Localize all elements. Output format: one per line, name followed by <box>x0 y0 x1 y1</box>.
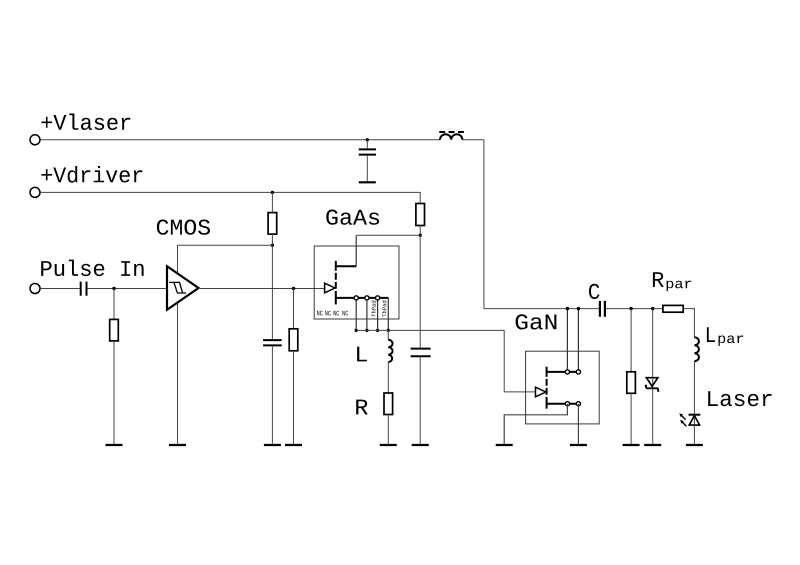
wire damp resistor to ground <box>630 393 632 444</box>
wire resistor to CMOS power node <box>271 234 273 245</box>
label GaAs <box>326 210 379 225</box>
resistor pullup GaAs drain <box>416 204 425 226</box>
capacitor CMOS filter <box>263 340 282 345</box>
capacitor decoupling GaAs <box>411 349 431 357</box>
wire coupling cap to buffer input <box>88 288 168 290</box>
node zener <box>651 307 654 310</box>
wire decoupling cap to ground <box>419 357 421 444</box>
wire R to ground <box>387 415 389 444</box>
wire cap C to Rpar <box>606 308 663 310</box>
resistor R <box>384 393 393 415</box>
node input bias <box>112 287 115 290</box>
wire CMOS power node to buffer <box>178 244 273 246</box>
source bar <box>547 399 579 409</box>
node CMOS power <box>271 244 274 247</box>
transistor GaN FET <box>536 309 581 409</box>
wire zener to ground <box>652 388 654 444</box>
wire laser to ground <box>693 425 695 444</box>
resistor gate pulldown <box>289 329 298 351</box>
terminal Pulse In <box>30 284 40 294</box>
capacitor bypass +Vlaser <box>366 140 368 181</box>
GaAs symbol box <box>314 246 399 319</box>
wire filter cap to ground <box>271 346 273 444</box>
wire GaN source 2 to ground <box>577 404 579 444</box>
resistor Rpar <box>663 305 683 312</box>
label C <box>589 284 600 299</box>
pin label nc x4 <box>317 311 323 316</box>
label +Vdriver <box>41 166 142 183</box>
channel dashed <box>335 269 337 296</box>
ground at CMOS buffer <box>169 444 186 446</box>
label Laser <box>708 391 771 406</box>
label L <box>357 347 367 362</box>
resistor damp <box>627 372 636 394</box>
wire buffer ground pin <box>177 303 179 444</box>
drain pin riser <box>355 235 357 266</box>
wire bias resistor to ground <box>113 341 115 444</box>
capacitor coupling input <box>81 282 87 296</box>
wire +Vlaser rail left <box>40 139 440 141</box>
label Pulse In <box>41 260 143 277</box>
ferrite bead FB1 <box>439 132 464 140</box>
ground at kelvin source <box>496 444 513 446</box>
wire CMOS power node to filter cap <box>271 245 273 339</box>
label Lpar <box>707 327 715 342</box>
label CMOS <box>157 220 210 235</box>
ground at gate pulldown <box>285 444 302 446</box>
pin label ThPad x2 <box>371 301 375 317</box>
resistor input bias <box>110 319 119 341</box>
GaN symbol box <box>526 351 600 424</box>
channel dashed <box>546 375 548 400</box>
drain bar <box>547 367 579 375</box>
source bar <box>336 295 389 305</box>
wire source rail to GaN gate <box>356 330 535 392</box>
laser diode LD1 <box>679 413 700 426</box>
wire +Vdriver rail <box>40 192 420 203</box>
resistor CMOS supply <box>268 213 277 235</box>
transistor GaAs FET <box>317 235 388 330</box>
wire node to bias resistor <box>113 289 115 320</box>
pin circles source <box>565 402 569 406</box>
ground at decoupling cap <box>412 444 429 446</box>
terminal +Vlaser <box>30 135 40 145</box>
op-amp CMOS buffer U1 <box>167 266 199 310</box>
ground at zener <box>644 444 661 446</box>
wire node to damp resistor <box>630 309 632 372</box>
diode zener D1 <box>645 378 659 391</box>
wire Pulse In to coupling cap <box>40 288 79 290</box>
ground at input bias <box>106 444 123 446</box>
wire +Vdriver to resistor <box>271 192 273 212</box>
wire node to pulldown resistor <box>293 289 295 329</box>
wire drain node to GaAs drain pin <box>356 234 420 236</box>
drain bar <box>336 261 356 269</box>
wire drain node down to decoupling cap <box>419 235 421 347</box>
wire +Vlaser rail right of bead <box>462 139 484 141</box>
schmitt hysteresis mark <box>169 282 186 293</box>
emission arrow 1 <box>682 416 686 420</box>
terminal +Vdriver <box>30 187 40 197</box>
wire resistor to drain node <box>419 226 421 236</box>
gate arrow <box>325 283 335 293</box>
wire +Vlaser drop to output rail <box>483 140 485 309</box>
wire output rail to cap C <box>484 308 599 310</box>
inductor Lpar <box>694 337 699 361</box>
inductor L <box>387 330 389 339</box>
pin circles <box>354 296 358 300</box>
node GaAs drain <box>419 234 422 237</box>
ground at R <box>380 444 397 446</box>
wire kelvin source to ground <box>504 404 567 444</box>
label R <box>356 400 368 415</box>
label +Vlaser <box>41 114 130 131</box>
emission arrow 2 <box>682 422 686 426</box>
cathode bar <box>689 414 701 416</box>
node damp resistor <box>629 307 632 310</box>
ground at laser <box>686 444 703 446</box>
junction dots GaAs source rail <box>355 329 358 332</box>
node gate resistor <box>292 287 295 290</box>
wire node to zener <box>652 309 654 389</box>
ground at filter cap <box>264 444 281 446</box>
gate arrow <box>536 387 546 397</box>
diode triangle <box>689 416 699 426</box>
wire buffer power pin <box>177 245 179 273</box>
wire Lpar to laser <box>693 361 695 425</box>
label GaN <box>516 314 557 329</box>
source pin stubs <box>356 298 388 331</box>
ground at GaN source <box>570 444 587 446</box>
capacitor C series <box>600 301 605 317</box>
wire Rpar to corner <box>683 309 694 338</box>
pin circles drain <box>565 370 569 374</box>
wire pulldown resistor to ground <box>293 351 295 444</box>
label Rpar <box>653 272 664 287</box>
junction +Vdriver at CMOS branch <box>271 191 274 194</box>
junction on +Vlaser at bypass cap <box>366 138 369 141</box>
wire L to R <box>387 362 389 393</box>
wire CMOS output to GaAs gate <box>199 288 325 290</box>
drain pin risers <box>567 309 578 372</box>
ground at damp resistor <box>623 444 640 446</box>
ground at bypass cap <box>359 181 376 183</box>
junction dots GaN drain on rail <box>566 307 569 310</box>
